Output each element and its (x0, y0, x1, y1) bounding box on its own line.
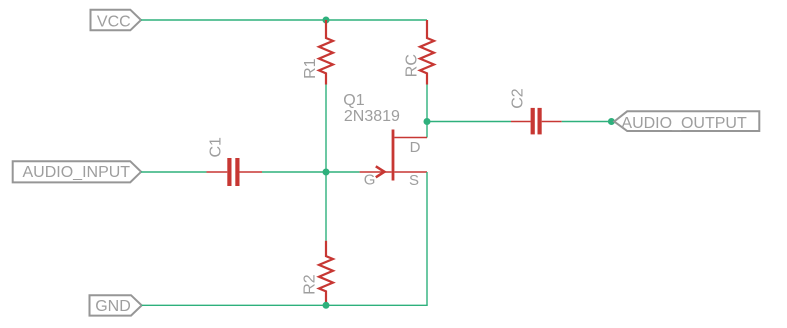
svg-text:VCC: VCC (97, 13, 131, 30)
wire gate node to transistor gate (326, 171, 360, 173)
wire VCC top rail (141, 19, 427, 21)
net flag AUDIO_INPUT (13, 161, 141, 182)
wire output node to C2 (427, 121, 511, 123)
wire source down to bottom rail (426, 172, 428, 305)
resistor R2 (319, 241, 333, 305)
drain lead (394, 137, 427, 139)
transistor Q1 2N3819 JFET (360, 130, 427, 181)
junction dot at R1 top (323, 17, 330, 24)
svg-text:G: G (364, 172, 376, 189)
channel bar (392, 130, 395, 181)
wire gate node down to R2 (325, 172, 327, 241)
capacitor C1 (207, 158, 263, 186)
svg-text:AUDIO_OUTPUT: AUDIO_OUTPUT (621, 115, 747, 132)
capacitor C2 (511, 108, 562, 134)
svg-text:RC: RC (404, 54, 421, 77)
resistor R1 (319, 20, 333, 85)
junction dot R2 bottom (323, 302, 330, 309)
junction dot at AUDIO_OUTPUT (608, 118, 615, 125)
net flag GND (90, 295, 142, 315)
svg-text:Q1: Q1 (343, 92, 364, 109)
net flag VCC (91, 10, 142, 31)
wire output node down to drain (426, 122, 428, 138)
svg-text:D: D (410, 139, 421, 156)
svg-text:AUDIO_INPUT: AUDIO_INPUT (23, 164, 131, 181)
net flag AUDIO_OUTPUT (614, 111, 759, 132)
gate lead (360, 171, 392, 173)
junction dot gate node (323, 169, 330, 176)
svg-text:R1: R1 (302, 58, 319, 79)
gate arrow (376, 166, 385, 177)
svg-text:GND: GND (95, 298, 131, 315)
svg-text:S: S (409, 172, 419, 189)
wire C2 to AUDIO_OUTPUT (562, 121, 614, 123)
source lead (394, 171, 427, 173)
svg-text:C2: C2 (510, 88, 527, 109)
wire GND bottom rail (142, 304, 428, 306)
wire R1 bottom to gate node (325, 85, 327, 173)
wire RC bottom to output node (426, 85, 428, 122)
wire C1 to gate node (262, 171, 326, 173)
junction dot output node (424, 118, 431, 125)
svg-text:C1: C1 (208, 137, 225, 158)
wire AUDIO_INPUT to C1 (141, 171, 206, 173)
wire RC top lead corner is part of rail; resistor RC (420, 20, 434, 85)
svg-text:2N3819: 2N3819 (344, 108, 400, 125)
svg-text:R2: R2 (302, 274, 319, 295)
